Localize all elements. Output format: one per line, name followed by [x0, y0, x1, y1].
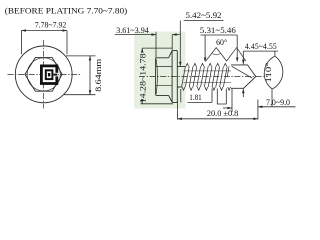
14.28 arrows — [141, 48, 144, 53]
5.42 leader down arrow — [179, 62, 182, 67]
svg-text:(BEFORE PLATING 7.70~7.80): (BEFORE PLATING 7.70~7.80) — [5, 7, 128, 16]
svg-text:4.45~4.55: 4.45~4.55 — [245, 42, 277, 51]
facet arc — [156, 59, 157, 94]
arrows side view — [141, 33, 263, 120]
5.31 down arrows — [204, 58, 207, 63]
left view: washer circle — [15, 46, 72, 103]
shank neck — [177, 66, 185, 87]
svg-text:7.0~9.0: 7.0~9.0 — [266, 98, 290, 107]
svg-text:110°: 110° — [264, 63, 273, 83]
left view: recess logo square — [40, 65, 58, 85]
dim 5.31~5.46 — [201, 34, 238, 36]
left view: hexagon — [25, 58, 62, 92]
svg-text:5.31~5.46: 5.31~5.46 — [200, 26, 236, 35]
svg-text:1.81: 1.81 — [189, 93, 202, 102]
head silhouette: chamfers + hex top/bottom — [156, 58, 169, 96]
side view — [139, 50, 268, 102]
thread crests bottom — [182, 87, 230, 90]
head top face — [155, 59, 157, 95]
svg-text:60°: 60° — [216, 38, 227, 47]
dim 7.0~9.0 — [258, 106, 296, 108]
svg-text:20.0 ±0.8: 20.0 ±0.8 — [207, 109, 238, 118]
dim 20.0 — [176, 101, 178, 120]
dim 1.81 — [188, 101, 213, 103]
4.45 arrows — [242, 60, 245, 65]
left view: inscribed chamfer circle — [27, 58, 60, 91]
drill point — [231, 65, 256, 88]
svg-text:7.78~7.92: 7.78~7.92 — [35, 21, 67, 30]
point length mark — [231, 89, 233, 112]
dimension lines side view — [115, 21, 296, 120]
svg-text:5.42~5.92: 5.42~5.92 — [186, 11, 222, 20]
thread helix flanks — [182, 66, 230, 87]
dim 4.45~4.55 — [243, 50, 278, 52]
dim 8.64mm lines — [66, 55, 96, 57]
washer flange — [172, 50, 177, 102]
green highlight over head region — [134, 32, 186, 109]
7.0~9.0 left arrow — [258, 106, 263, 109]
facet lines — [156, 67, 172, 86]
svg-text:14.28~14.78: 14.28~14.78 — [138, 54, 147, 104]
dim 14.28~14.78 — [141, 48, 143, 52]
axis center line — [139, 76, 268, 78]
point length right arrow — [228, 107, 233, 110]
svg-text:3.61~3.94: 3.61~3.94 — [116, 26, 149, 35]
thread minor lines — [184, 71, 232, 83]
left view: center lines (crosshair) — [8, 73, 81, 75]
3.61 right arrow — [152, 33, 157, 36]
arrows 8.64 dim — [89, 56, 92, 61]
lens bottom leader — [271, 89, 273, 107]
dim 3.61~3.94 — [115, 34, 156, 36]
dim 7.78~7.92 lines — [21, 30, 67, 32]
arrows 7.78 dim — [21, 29, 26, 32]
dim 5.42~5.92 leader — [184, 20, 224, 22]
svg-text:8.64mm: 8.64mm — [94, 58, 103, 92]
thread crests top — [186, 63, 227, 66]
point detail lens — [264, 56, 283, 89]
60 deg thread form detail W — [206, 48, 246, 61]
flute line — [232, 66, 253, 78]
washer cone — [169, 51, 173, 103]
bracket near point — [217, 89, 226, 105]
20.0 arrows — [177, 118, 182, 121]
